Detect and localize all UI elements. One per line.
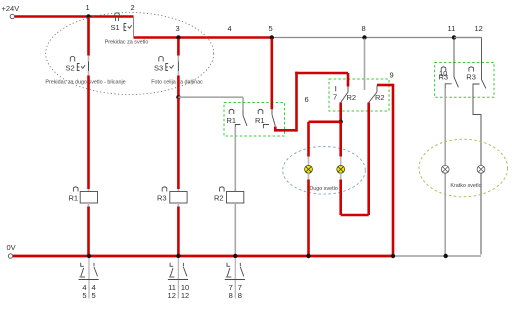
junction node at S3 branch: [176, 95, 180, 99]
wire net 4/5: second rail gray part: [272, 37, 482, 39]
switch S2 (Prekidac za dugo svetlo): [66, 56, 89, 76]
wire: lamp2 bottom to R2 right output: [341, 180, 369, 216]
svg-text:10: 10: [439, 69, 447, 78]
svg-text:7: 7: [333, 93, 337, 102]
dashed ellipse around Kratko svetlo lamps: [419, 139, 508, 197]
svg-text:5: 5: [92, 291, 96, 300]
wire: 0V rail gray part: [393, 255, 481, 257]
node 5: [269, 24, 274, 40]
wire: R1 coil to 0V rail: [87, 207, 90, 255]
0V supply terminal: [7, 243, 16, 258]
svg-text:S3: S3: [154, 64, 163, 73]
svg-text:1: 1: [86, 3, 90, 12]
svg-text:R1: R1: [255, 116, 265, 125]
switch S1 (Prekidac za svetlo): [111, 13, 134, 37]
node 3: [176, 24, 181, 40]
+24V supply terminal: [2, 4, 20, 19]
wire: lamp1 column lower: [307, 180, 310, 255]
svg-text:5: 5: [269, 24, 273, 33]
wire: node1 down to S2: [87, 17, 90, 56]
relay contact R3 right (NC open): [466, 67, 486, 90]
wire net 1: +24V rail to S1: [15, 15, 134, 18]
svg-text:Dugo svetlo: Dugo svetlo: [309, 186, 337, 192]
0V rail junction nodes: [87, 254, 448, 258]
green box around R1 contacts: [224, 103, 285, 137]
svg-text:R2: R2: [214, 194, 224, 203]
svg-text:Kratko svetlo: Kratko svetlo: [450, 183, 481, 189]
svg-text:2: 2: [131, 3, 135, 12]
green box around R2 contacts: [329, 79, 389, 111]
wire: S2 down to R1 coil: [87, 76, 90, 190]
contact mirror R3 below rail: [168, 258, 190, 300]
dashed ellipse around Dugo svetlo lamps: [283, 147, 366, 195]
svg-text:8: 8: [362, 24, 366, 33]
svg-text:S1: S1: [111, 23, 120, 32]
svg-text:12: 12: [475, 24, 483, 33]
wire: R2 right output down: [367, 103, 370, 216]
svg-text:11: 11: [448, 24, 456, 33]
svg-text:4: 4: [228, 24, 232, 33]
svg-text:0V: 0V: [7, 243, 16, 252]
wire: R1 left contact to R2 coil: [234, 127, 236, 192]
contact mirror R1 below rail: [79, 258, 99, 300]
wire: R3 coil to 0V rail: [177, 207, 180, 255]
wire net 7: R2 left output down to lamp junction: [339, 103, 342, 122]
wire net 12: rail corner down to R3 right contact: [454, 38, 482, 80]
lamp H3 Kratko svetlo left: [441, 165, 449, 173]
wire: junction down to R3 coil: [177, 97, 180, 189]
svg-text:9: 9: [390, 71, 394, 80]
svg-text:5: 5: [82, 291, 86, 300]
wire: node 8 down to R2 right NO terminal: [364, 39, 366, 91]
relay coil R3: [157, 187, 187, 207]
wire: R2 coil to 0V rail: [234, 203, 236, 255]
wire: lamp1 top branch: [309, 121, 341, 124]
wire: R3 left output to lamp3: [444, 88, 446, 255]
svg-text:R3: R3: [466, 73, 476, 82]
relay coil R2: [214, 187, 244, 203]
relay contact R1 left (NC open): [227, 109, 248, 129]
dashed ellipse around S2 S3 group: [46, 13, 214, 95]
svg-text:Prekidac za dugo svetlo - blic: Prekidac za dugo svetlo - blicanje: [45, 80, 125, 86]
svg-text:R1: R1: [227, 116, 237, 125]
switch S3 (Foto celija): [154, 56, 178, 76]
wire: branch to R1 contacts: [178, 96, 243, 98]
relay coil R1: [69, 187, 98, 207]
svg-text:Prekidac za svetlo: Prekidac za svetlo: [105, 40, 149, 46]
wire: into R2 left contact: [347, 73, 350, 87]
svg-text:S2: S2: [66, 64, 75, 73]
wire: lamp2 column upper: [339, 122, 342, 157]
lamp H1 Dugo svetlo left: [305, 157, 313, 180]
wire net 3/4: second rail red part: [134, 36, 272, 39]
node 1: [86, 3, 91, 19]
svg-text:6: 6: [305, 95, 309, 104]
wire: S3 to junction: [177, 76, 180, 98]
node 8: [362, 24, 367, 40]
junction node lamp2 top: [339, 120, 343, 124]
svg-text:8: 8: [238, 291, 242, 300]
wire: node3 down to S3: [177, 39, 180, 56]
wire: R3 right output to lamp4: [473, 88, 481, 255]
svg-text:+24V: +24V: [2, 4, 20, 13]
wire net 9: R2 right top to 0V column: [377, 71, 394, 255]
contact mirror R2 below rail: [225, 258, 245, 300]
svg-text:8: 8: [229, 291, 233, 300]
wire net 6: R1 right contact output: [274, 72, 348, 132]
wire: 0V rail red part: [13, 255, 393, 258]
wire: lamp1 column upper: [307, 122, 310, 157]
relay contact R3 left (NC open): [439, 67, 459, 90]
green box around R3 contacts: [435, 63, 494, 98]
node 11: [448, 24, 457, 40]
lamp H4 Kratko svetlo right: [477, 165, 485, 173]
relay contact R2 right (NC closed): [369, 86, 385, 103]
relay contact R2 left (NC closed): [333, 86, 356, 103]
relay contact R1 right (NO closed): [255, 109, 275, 128]
svg-text:12: 12: [181, 291, 189, 300]
wire: node 11 down to R3 left contact: [453, 39, 455, 78]
svg-text:R1: R1: [69, 194, 79, 203]
wire: node5 down to R1 right contact: [270, 39, 273, 110]
svg-text:R2: R2: [375, 93, 385, 102]
svg-text:R3: R3: [157, 194, 167, 203]
lamp H2 Dugo svetlo right: [337, 157, 345, 180]
svg-text:3: 3: [176, 24, 180, 33]
svg-text:12: 12: [168, 291, 176, 300]
svg-text:R2: R2: [347, 93, 357, 102]
